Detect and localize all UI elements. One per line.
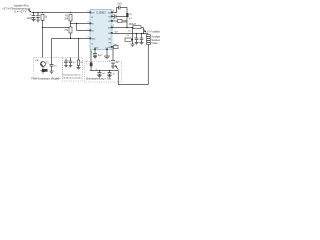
pin marks left — [89, 12, 91, 40]
svg-text:4µ7: 4µ7 — [73, 62, 76, 64]
capacitor C1 — [27, 13, 36, 22]
output arrow — [144, 30, 163, 34]
svg-text:R8: R8 — [81, 62, 83, 64]
dashed box PWM comparator — [31, 58, 63, 81]
node E — [78, 38, 79, 39]
svg-text:Energiespeicher für: Energiespeicher für — [63, 75, 81, 77]
wire corner after L1 — [142, 28, 145, 34]
node B — [70, 23, 71, 24]
svg-text:2n2: 2n2 — [118, 3, 123, 6]
wire bus — [52, 37, 91, 40]
pin marks bottom — [94, 49, 108, 51]
svg-text:100µ: 100µ — [27, 18, 33, 20]
capacitor C4 elco — [112, 15, 127, 19]
wire corner down — [50, 39, 53, 58]
wire Y3 to IC — [77, 29, 91, 32]
wire feedback loop — [118, 45, 148, 85]
input label text — [2, 4, 31, 14]
node A — [42, 27, 43, 28]
svg-text:GND: GND — [91, 39, 96, 41]
node D — [70, 38, 71, 39]
node C — [76, 23, 77, 24]
resistor divider block — [147, 35, 162, 46]
capacitor C9 elco below IC — [91, 50, 102, 59]
capacitor C7 elco — [96, 69, 105, 78]
capacitor C6 — [140, 34, 144, 45]
bootstrap wire — [112, 8, 127, 28]
capacitor C12 — [64, 59, 68, 68]
capacitor C3 — [118, 3, 123, 10]
svg-text:b: b — [86, 64, 87, 66]
svg-text:4µ7: 4µ7 — [102, 73, 105, 75]
zener D3 on bootstrap node — [126, 13, 132, 20]
resistor R5 — [112, 20, 128, 24]
resistor R8 — [77, 58, 83, 70]
dashed box current limit — [85, 62, 122, 83]
op-amp U1 (regulator IC block) — [90, 10, 112, 50]
feedback arrow — [115, 65, 118, 70]
transistor Q1 — [41, 62, 50, 74]
capacitor C5 elco — [134, 34, 139, 45]
resistor R1 — [41, 14, 48, 27]
input terminal arrow — [28, 10, 32, 13]
inductor L1 — [129, 23, 142, 29]
svg-text:PWM-Komparator (Regler): PWM-Komparator (Regler) — [31, 78, 59, 81]
pin numbers — [87, 11, 115, 39]
resistor R9 on ON pin — [112, 44, 118, 60]
capacitor C10 elco — [109, 61, 120, 69]
wire top rail — [32, 11, 91, 14]
capacitor C8 — [108, 71, 116, 78]
pin marks right — [111, 12, 113, 48]
ground below IC — [104, 50, 110, 59]
node dots top rail — [33, 12, 71, 13]
diode D1 — [125, 28, 135, 47]
svg-text:5k6: 5k6 — [114, 44, 117, 46]
svg-text:VIN: VIN — [91, 13, 95, 15]
capacitor C2 — [36, 13, 40, 23]
wire low output rail — [113, 32, 149, 35]
capacitor C11 — [50, 58, 58, 74]
svg-text:SW: SW — [108, 28, 111, 30]
dashed box energy storage — [63, 58, 83, 82]
wire Y1 to IC — [71, 22, 91, 25]
wire down from node E — [77, 39, 80, 58]
wire down to comparator box — [41, 28, 44, 58]
wire sense rail — [91, 69, 118, 72]
transistor Q2 sense element — [86, 50, 92, 71]
capacitor C13 elco — [67, 58, 75, 68]
wire branch down — [75, 24, 78, 31]
wire Y2 — [43, 26, 71, 29]
wire SW rail — [112, 26, 144, 29]
resistor R2 — [64, 15, 72, 28]
resistor R3 — [64, 27, 72, 39]
